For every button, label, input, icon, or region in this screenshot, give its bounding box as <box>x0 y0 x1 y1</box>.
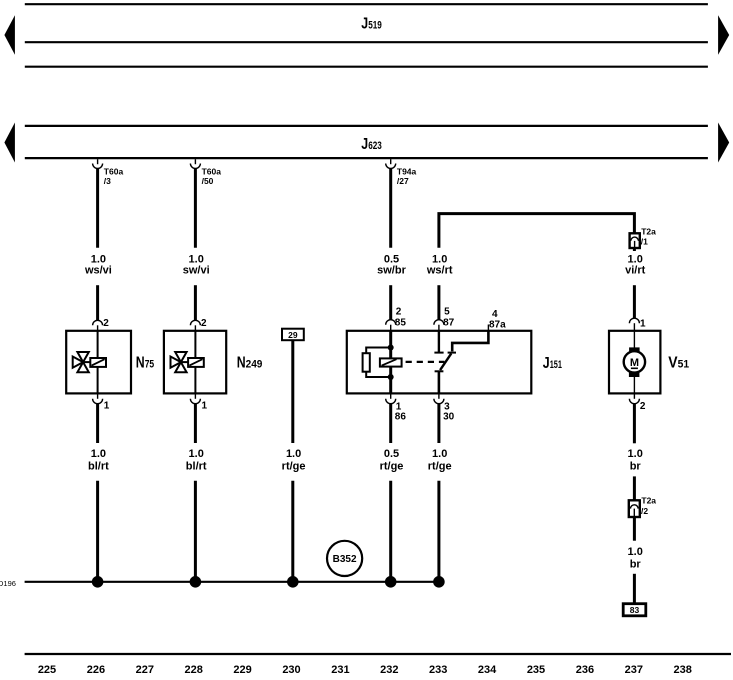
svg-text:225: 225 <box>38 664 56 676</box>
label 1.0 br (lower) <box>628 546 643 571</box>
svg-text:1.0: 1.0 <box>628 546 643 558</box>
svg-text:29: 29 <box>288 330 298 340</box>
left continuation arrow J519 <box>4 15 15 54</box>
svg-text:sw/br: sw/br <box>377 265 406 277</box>
valve N249 box <box>164 331 226 394</box>
svg-text:30: 30 <box>443 412 455 423</box>
wire 0.5 sw/br lower segment <box>389 285 392 320</box>
relay contact 87a arm feed <box>452 331 488 352</box>
label 1.0 ws/vi <box>84 254 112 277</box>
svg-text:2: 2 <box>396 307 402 318</box>
pin 2 of N249 <box>190 318 207 331</box>
svg-text:M: M <box>630 357 639 369</box>
relay fixed contact 87 <box>434 331 443 353</box>
ruler line <box>25 653 731 655</box>
svg-text:233: 233 <box>429 664 447 676</box>
svg-text:bl/rt: bl/rt <box>186 461 207 473</box>
right continuation arrow J519 <box>718 15 729 54</box>
left continuation arrow J623 <box>4 123 15 163</box>
svg-text:/3: /3 <box>104 176 111 186</box>
bus J519 line 3 <box>25 66 708 68</box>
svg-text:T94a: T94a <box>397 166 417 176</box>
wire 1.0 vi/rt stub below T2a/1 <box>633 248 636 251</box>
wire 1.0 ws/rt lower segment <box>437 285 440 320</box>
svg-text:bl/rt: bl/rt <box>88 461 109 473</box>
relay J151 box <box>347 331 532 394</box>
relay J151 pin 4/87a label and stub <box>488 309 506 331</box>
svg-text:83: 83 <box>630 605 640 615</box>
svg-text:1.0: 1.0 <box>91 448 106 460</box>
relay coil parallel resistor loop <box>366 348 391 378</box>
svg-text:0.5: 0.5 <box>384 448 399 460</box>
svg-text:br: br <box>630 461 642 473</box>
svg-text:T2a: T2a <box>641 227 656 237</box>
wire 1.0 vi/rt lower segment <box>633 285 636 319</box>
wire 1.0 br upper segment <box>633 404 636 444</box>
svg-text:228: 228 <box>185 664 203 676</box>
label 1.0 vi/rt <box>625 254 646 277</box>
connector T60a/50 <box>190 159 221 186</box>
label 0.5 rt/ge <box>380 448 404 473</box>
wire bridge from node E up and across to T2a/1 <box>439 214 635 248</box>
svg-text:ws/vi: ws/vi <box>84 265 112 277</box>
relay contact 30 line <box>438 371 441 393</box>
svg-text:234: 234 <box>478 664 497 676</box>
svg-text:238: 238 <box>674 664 692 676</box>
wire 1.0 ws/vi upper segment <box>96 169 99 248</box>
svg-text:2: 2 <box>201 318 207 329</box>
svg-text:1.0: 1.0 <box>432 448 447 460</box>
svg-text:/2: /2 <box>641 506 648 516</box>
svg-text:T60a: T60a <box>202 166 222 176</box>
svg-text:227: 227 <box>136 664 154 676</box>
label 1.0 ws/rt <box>426 254 453 277</box>
junction node coil top <box>388 345 394 351</box>
wire 1.0 bl/rt upper segment (N75) <box>96 404 99 443</box>
svg-text:vi/rt: vi/rt <box>625 265 646 277</box>
svg-text:87a: 87a <box>489 319 506 330</box>
wire 0.5 rt/ge lower segment <box>389 481 392 582</box>
relay J151 pin 3/30 <box>434 393 455 422</box>
relay contact 30 tick <box>435 370 444 372</box>
svg-text:229: 229 <box>233 664 251 676</box>
svg-text:T60a: T60a <box>104 166 124 176</box>
svg-text:86: 86 <box>395 412 407 423</box>
connector T2a/2 <box>629 496 657 518</box>
pump motor V51 pin 2 <box>629 393 646 412</box>
svg-text:br: br <box>630 559 642 571</box>
relay coil winding symbol <box>380 358 402 366</box>
svg-text:rt/ge: rt/ge <box>380 461 404 473</box>
N75 internal wire <box>97 331 99 393</box>
terminal box 29 <box>282 329 304 341</box>
wire 1.0 rt/ge upper segment (column 233) <box>437 404 440 443</box>
svg-text:B352: B352 <box>333 554 357 565</box>
label 1.0 rt/ge (column 230) <box>282 448 306 473</box>
svg-text:87: 87 <box>443 318 455 329</box>
V51 motor brush bottom <box>629 372 640 377</box>
svg-text:226: 226 <box>87 664 105 676</box>
svg-text:/50: /50 <box>202 176 214 186</box>
junction node column 232 <box>385 576 397 588</box>
svg-text:235: 235 <box>527 664 545 676</box>
wire 1.0 rt/ge lower segment (column 230) <box>291 481 294 582</box>
svg-text:1: 1 <box>640 319 646 330</box>
svg-text:1: 1 <box>202 401 208 412</box>
relay resistor <box>363 353 370 372</box>
svg-text:1.0: 1.0 <box>286 448 301 460</box>
ground connection B352 <box>327 541 362 576</box>
junction node column 230 <box>287 576 299 588</box>
svg-text:2: 2 <box>103 318 109 329</box>
junction node column 226 <box>92 576 104 588</box>
wire 1.0 bl/rt lower segment (N75) <box>96 481 99 582</box>
relay J151 pin 5/87 <box>434 307 455 331</box>
svg-text:5: 5 <box>444 307 450 318</box>
svg-text:237: 237 <box>625 664 643 676</box>
svg-text:1.0: 1.0 <box>189 448 204 460</box>
wire 1.0 bl/rt lower segment (N249) <box>194 481 197 582</box>
wire 1.0 sw/vi lower segment <box>194 285 197 320</box>
right continuation arrow J623 <box>718 123 729 163</box>
wire 1.0 rt/ge lower segment (column 233) <box>437 481 440 582</box>
wire 1.0 br end segment <box>633 574 636 604</box>
label 1.0 br (upper) <box>628 448 643 473</box>
bus J519 line 1 <box>25 3 708 5</box>
relay contact 87a tick <box>448 352 456 354</box>
connector T60a/3 <box>93 159 124 186</box>
ground junction wire to D196 <box>25 581 439 583</box>
svg-text:232: 232 <box>380 664 398 676</box>
svg-text:1.0: 1.0 <box>628 448 643 460</box>
wire 1.0 ws/vi lower segment <box>96 285 99 320</box>
pump motor V51 box <box>609 331 660 394</box>
svg-text:/27: /27 <box>397 176 409 186</box>
label 1.0 rt/ge (column 233) <box>428 448 452 473</box>
ground terminal box 83 <box>623 604 646 616</box>
wire 0.5 sw/br upper segment <box>389 169 392 248</box>
label 1.0 bl/rt (N249) <box>186 448 207 473</box>
relay J151 pin 1/86 <box>386 393 407 422</box>
junction node column 228 <box>190 576 202 588</box>
bus J519 line 2 <box>25 41 708 43</box>
svg-text:2: 2 <box>640 401 646 412</box>
svg-text:230: 230 <box>282 664 300 676</box>
wire 1.0 rt/ge upper segment (from box 29) <box>291 340 294 443</box>
V51 motor circle <box>624 351 645 372</box>
pin 1 of N75 <box>93 393 110 411</box>
pin 1 of N249 <box>190 393 207 411</box>
connector T94a/27 <box>386 159 417 186</box>
wire 0.5 rt/ge upper segment <box>389 404 392 443</box>
V51 motor M underline <box>631 367 638 369</box>
svg-text:D196: D196 <box>0 579 16 588</box>
relay movable contact arm <box>440 353 451 370</box>
N249 valve cross symbol <box>171 352 189 372</box>
svg-text:T2a: T2a <box>641 496 656 506</box>
valve N75 box <box>66 331 131 394</box>
svg-text:/1: /1 <box>641 237 648 247</box>
N249 solenoid coil symbol <box>188 358 204 367</box>
wire 1.0 bl/rt upper segment (N249) <box>194 404 197 443</box>
pump motor V51 pin 1 <box>629 318 646 331</box>
svg-text:rt/ge: rt/ge <box>428 461 452 473</box>
N249 internal wire <box>194 331 196 393</box>
V51 motor brush top <box>629 347 640 352</box>
label 1.0 bl/rt (N75) <box>88 448 109 473</box>
junction node coil bottom <box>388 374 394 380</box>
svg-text:85: 85 <box>395 318 407 329</box>
svg-text:236: 236 <box>576 664 594 676</box>
relay actuation dashed link <box>406 361 445 363</box>
label 0.5 sw/br <box>377 254 406 277</box>
label 1.0 sw/vi <box>183 254 210 277</box>
relay coil feed wire (85 to 86) <box>389 331 392 394</box>
bus J623 line 1 <box>25 125 708 127</box>
V51 internal wire <box>633 331 635 393</box>
bus J623 line 2 <box>25 157 708 159</box>
svg-text:sw/vi: sw/vi <box>183 265 210 277</box>
junction node column 233 <box>433 576 445 588</box>
wire 1.0 sw/vi upper segment <box>194 169 197 248</box>
N75 valve cross symbol <box>73 352 91 372</box>
svg-text:rt/ge: rt/ge <box>282 461 306 473</box>
connector T2a/1 <box>630 227 657 249</box>
svg-text:231: 231 <box>331 664 349 676</box>
N75 solenoid coil symbol <box>90 358 106 367</box>
svg-text:ws/rt: ws/rt <box>426 265 453 277</box>
svg-text:1: 1 <box>104 401 110 412</box>
wire 1.0 br middle segment <box>633 476 636 500</box>
pin 2 of N75 <box>93 318 110 331</box>
relay J151 pin 2/85 <box>386 307 407 331</box>
wire 1.0 br lower segment <box>633 517 636 541</box>
